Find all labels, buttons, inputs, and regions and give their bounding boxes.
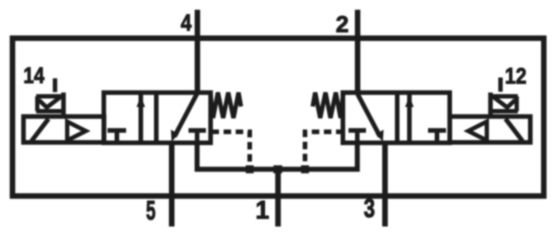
left box2 blocked port T [189,130,206,141]
port 2 line [355,10,361,93]
left valve body (two position boxes) [104,93,211,143]
left pilot actuator box (solenoid + pilot) [24,117,105,143]
left box1 blocked port T [108,130,127,141]
right pilot triangle [468,122,487,141]
right box3 diagonal flow path 2->3 with arrow [357,94,383,142]
left solenoid coil diagonal [32,119,49,141]
right valve body (two position boxes) [343,93,450,143]
right solenoid coil diagonal [506,119,523,141]
svg-text:3: 3 [364,193,375,223]
svg-text:14: 14 [23,63,45,88]
right box3 blocked port T [349,130,367,141]
junction node port 1 [273,165,282,173]
pilot port 12 tick [498,78,502,92]
right box4 flow arrow (up) [405,94,414,142]
wire: left valve port1 drop to manifold [197,143,357,170]
svg-text:1: 1 [256,197,270,224]
pilot line left (dashed) [212,132,250,166]
port 5 line [169,143,175,227]
right manual override box [491,96,518,111]
left manual override box [36,96,63,111]
left pilot triangle [67,122,86,141]
junction node left pilot tap [246,165,254,173]
junction node right pilot tap [301,165,309,173]
return spring left valve [211,93,241,119]
left box1 flow arrow (up) [137,94,146,142]
svg-text:4: 4 [181,10,192,36]
left valve divider [154,93,159,143]
enclosure border frame [13,38,544,196]
right manual override riser [488,93,493,117]
return spring right valve [313,93,343,119]
right pilot actuator box (solenoid + pilot) [450,117,531,143]
pilot port 14 tick [53,78,57,92]
port 1 line [275,169,281,226]
port 4 line [195,10,201,93]
left manual override riser [61,93,66,117]
right valve divider [395,93,400,143]
left box2 diagonal flow path 4->5 with arrow [171,94,197,142]
pilot line right (dashed) [305,132,344,166]
svg-text:2: 2 [336,11,349,37]
right box4 blocked port T [428,130,446,141]
svg-text:12: 12 [505,64,527,89]
svg-text:5: 5 [146,196,156,226]
port 3 line [382,143,388,227]
